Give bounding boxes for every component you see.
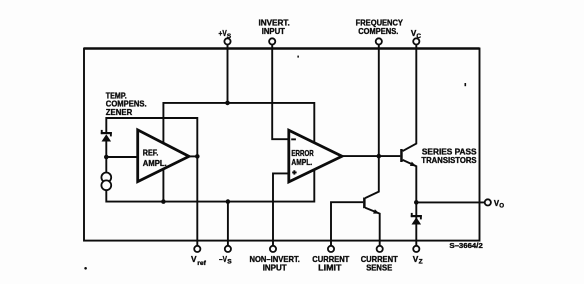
svg-text:COMPENS.: COMPENS.: [358, 26, 398, 36]
svg-text:O: O: [499, 203, 504, 210]
terminal INVERT INPUT: [269, 38, 275, 44]
svg-text:S: S: [227, 259, 232, 266]
wire Q2 emitter to CURRENT SENSE: [365, 208, 379, 246]
junction dot +Vs / top rail: [225, 101, 230, 106]
junction dot REF bottom feed / -Vs rail: [161, 199, 166, 204]
wire +Vs rail (top) with supply feeds into REF AMPL and ERROR AMPL: [163, 103, 314, 144]
terminal Vz: [413, 246, 419, 252]
terminal FREQUENCY COMPENS: [376, 38, 382, 44]
wire FREQUENCY COMPENS drop / Q2 collector riser: [365, 45, 379, 199]
svg-text:S: S: [227, 33, 232, 40]
terminal +Vs: [224, 38, 230, 44]
wire ERROR AMPL output to series pass base: [341, 155, 400, 157]
svg-text:+V: +V: [219, 29, 228, 38]
op-amp REF AMPL: [138, 130, 189, 182]
transistor Q2 base bar (current limit): [363, 198, 366, 209]
zener diode D1 (temp compens zener): [101, 130, 103, 134]
svg-text:REF.: REF.: [143, 148, 159, 158]
wire zener column top / Vref output wire / Vref terminal drop: [106, 118, 197, 246]
wire -Vs terminal drop: [227, 202, 229, 246]
terminal -Vs: [225, 246, 231, 252]
wire Q1 emitter to output node: [403, 160, 417, 203]
svg-text:LIMIT: LIMIT: [318, 262, 341, 272]
junction dot -Vs terminal / rail: [226, 199, 231, 204]
op-amp ERROR AMPL: [289, 130, 342, 182]
wire output node to Vo terminal: [416, 201, 484, 203]
wire output node through zener D2 to Vz terminal: [415, 202, 417, 245]
wire +Vs terminal drop: [227, 45, 229, 103]
svg-text:–V: –V: [219, 254, 227, 264]
svg-text:Z: Z: [419, 259, 423, 266]
wire REF AMPL bottom supply feed: [162, 168, 164, 202]
transistor Q1 base bar (series pass): [400, 149, 403, 162]
wire zener to current source: [105, 141, 107, 173]
wire node A to REF AMPL input: [106, 156, 137, 158]
scan speck bottom left: [84, 267, 87, 270]
svg-text:INPUT: INPUT: [262, 26, 285, 36]
junction dot zener node: [104, 155, 109, 160]
svg-text:S–3664/2: S–3664/2: [449, 243, 483, 250]
svg-text:SENSE: SENSE: [366, 262, 392, 272]
svg-text:V: V: [191, 254, 197, 264]
junction dot output node Vo: [414, 200, 419, 205]
wire Vc drop / Q1 collector: [403, 45, 417, 152]
svg-text:ref: ref: [197, 260, 206, 267]
terminal Vo: [485, 199, 491, 205]
ERROR AMPL plus input mark: [293, 170, 295, 174]
svg-text:AMPL.: AMPL.: [143, 158, 167, 168]
terminal CURRENT LIMIT: [328, 246, 334, 252]
svg-text:TRANSISTORS: TRANSISTORS: [421, 155, 477, 165]
wire -Vs rail (bottom) with feed up into ERROR AMPL: [106, 168, 314, 201]
wire NON-INVERT INPUT to ERROR AMPL non-inverting input: [273, 173, 289, 245]
wire REF AMPL output stub: [188, 155, 198, 157]
zener diode D2 (Vz): [411, 213, 413, 217]
wire CURRENT LIMIT to Q2 base: [331, 202, 363, 246]
svg-text:C: C: [416, 33, 421, 40]
wire INVERT INPUT to ERROR AMPL inverting input: [272, 45, 289, 140]
terminal CURRENT SENSE: [377, 246, 383, 252]
junction dot error output / freq compens: [377, 154, 382, 159]
scan speck below INPUT label: [297, 56, 299, 58]
ERROR AMPL minus input mark: [291, 138, 296, 140]
terminal NON-INVERT INPUT: [270, 246, 276, 252]
transistor Q1 emitter arrow: [410, 162, 416, 167]
svg-text:INPUT: INPUT: [263, 262, 287, 272]
terminal Vc: [413, 38, 419, 44]
transistor Q2 emitter arrow: [373, 209, 379, 213]
IC boundary box: [84, 49, 480, 241]
terminal Vref: [194, 246, 200, 252]
current source I1: [101, 173, 111, 183]
junction dot REF AMPL output: [195, 154, 200, 159]
scan speck top right: [465, 83, 467, 86]
svg-text:AMPL.: AMPL.: [291, 157, 312, 167]
svg-text:ZENER: ZENER: [106, 107, 132, 117]
